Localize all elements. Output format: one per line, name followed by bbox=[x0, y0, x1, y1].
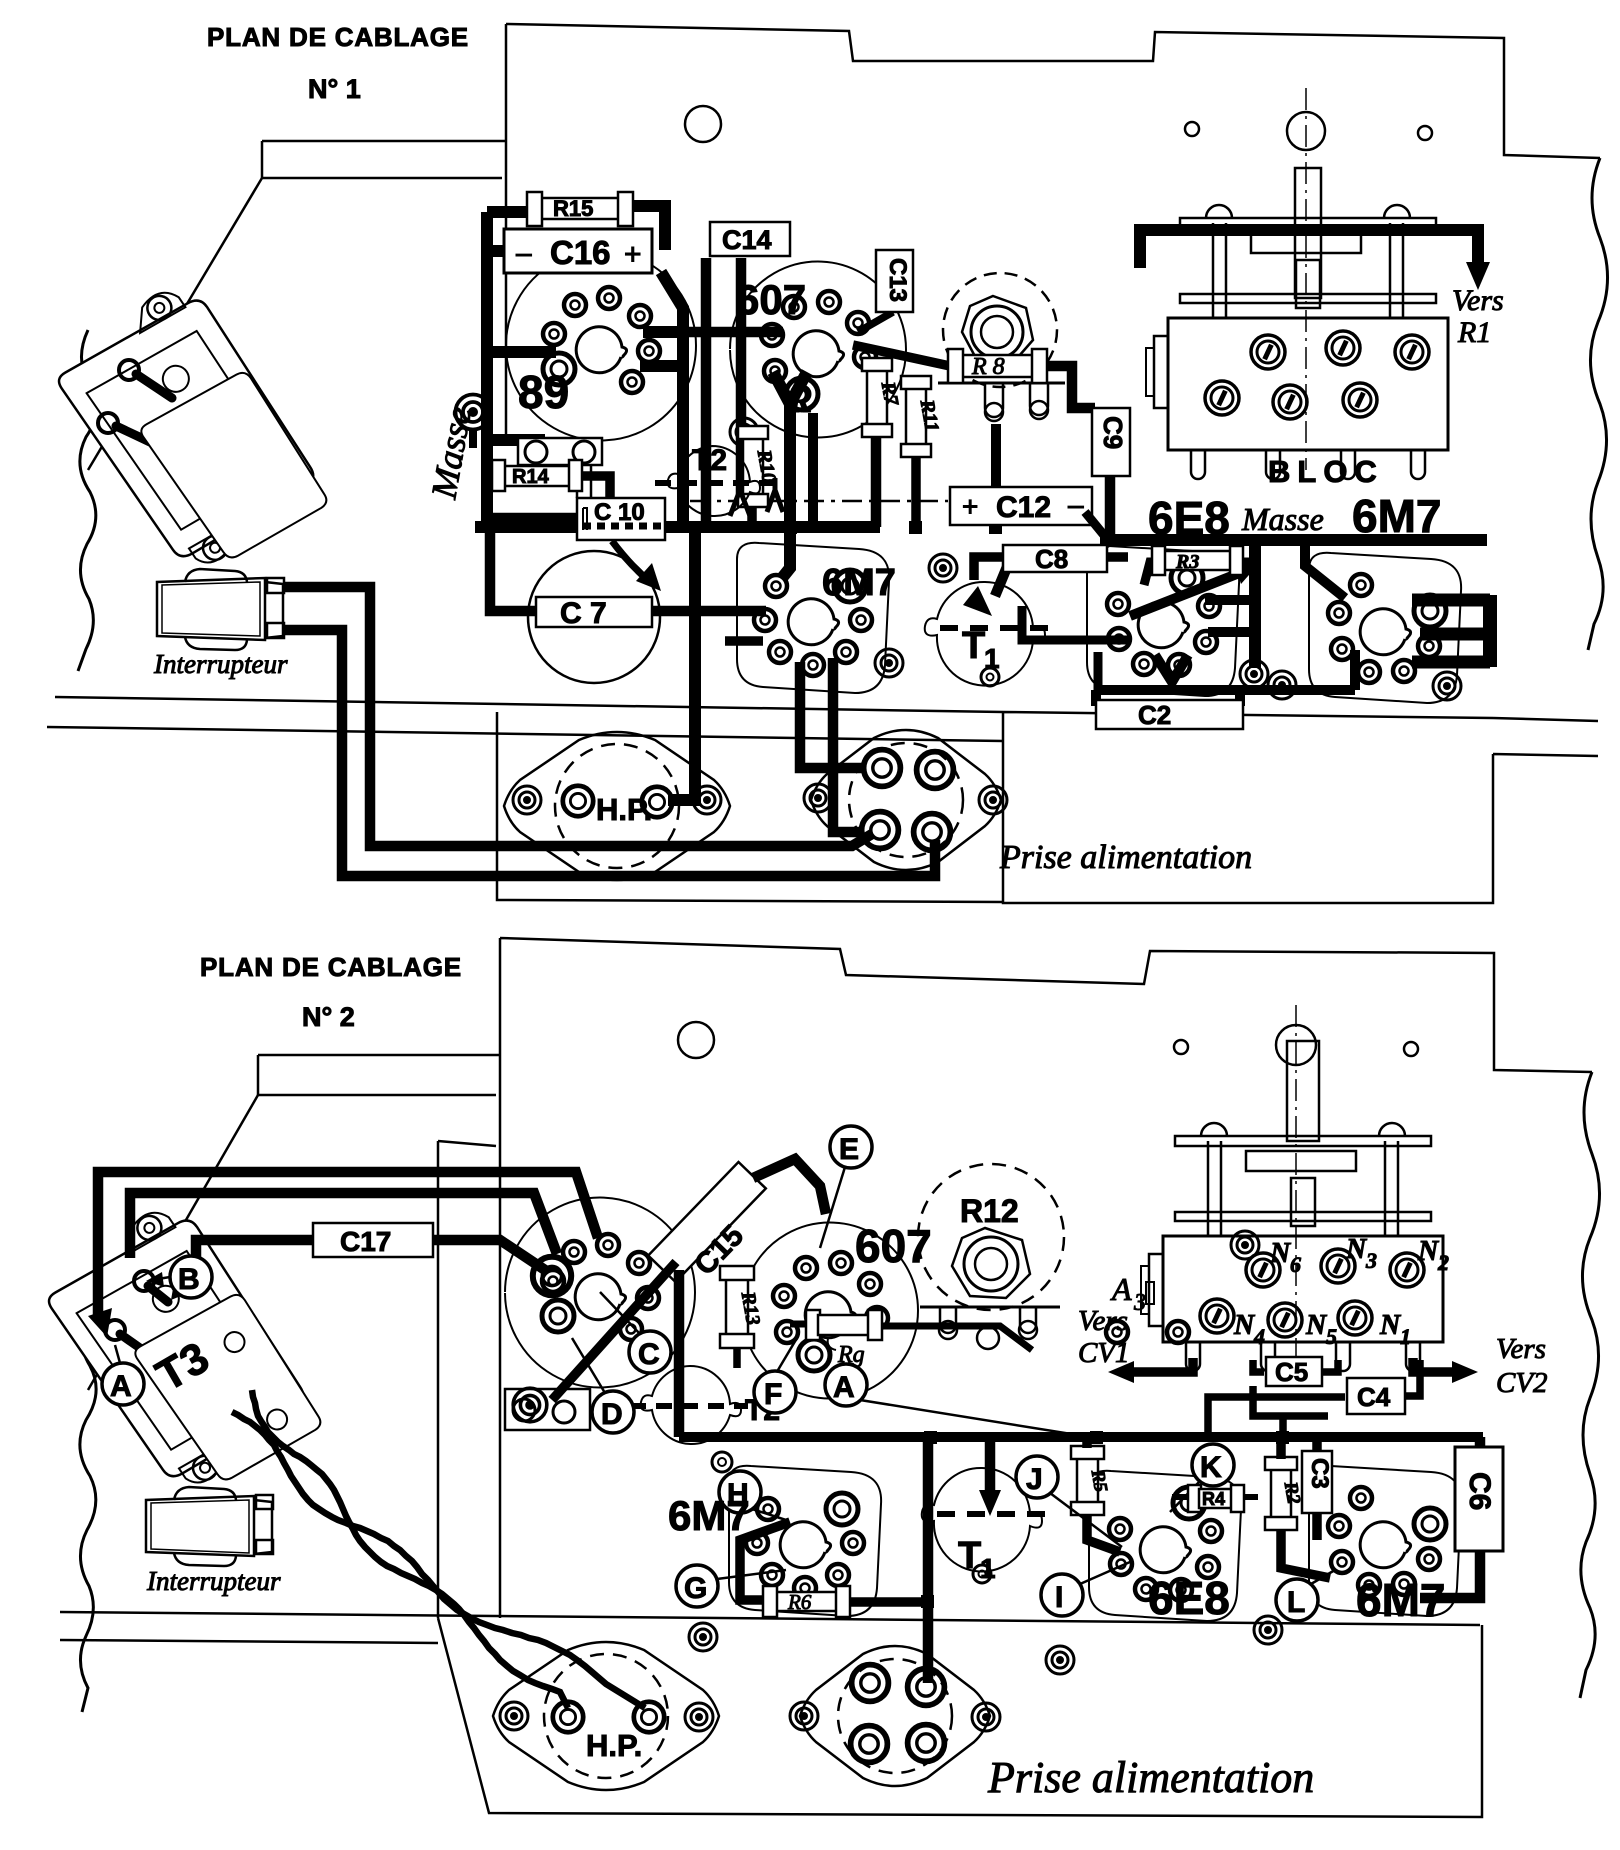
left paper torn edge bbox=[78, 330, 96, 671]
tube socket 607 (V2) center hole bbox=[793, 331, 843, 377]
twisted pair wire to HP bbox=[252, 1390, 568, 1708]
svg-text:I: I bbox=[1055, 1581, 1063, 1614]
pointer E bbox=[820, 1167, 845, 1248]
tube socket 89 (V1) plan2 pin 7 bbox=[620, 1318, 642, 1340]
tube socket 6E8 (V4) pin 6 bbox=[1108, 628, 1130, 650]
wire C6 bottom to 6M7 pin bbox=[1420, 1551, 1480, 1598]
svg-text:1: 1 bbox=[1400, 1324, 1411, 1349]
power socket prise alimentation ear rivet 1 bbox=[804, 784, 832, 812]
loudspeaker socket HP pin 2 bbox=[642, 787, 672, 817]
tube socket 607 (V2) pin 1 bbox=[786, 378, 818, 410]
wire C16 plus to bus bbox=[661, 272, 683, 527]
junction dot bbox=[1251, 534, 1263, 546]
svg-text:C4: C4 bbox=[1357, 1382, 1391, 1412]
power socket prise alimentation plan2 pin 4 bbox=[908, 1725, 945, 1762]
loudspeaker socket HP plan2 ear rivet 2 bbox=[685, 1703, 713, 1731]
resistor R11 bbox=[901, 376, 943, 457]
chassis top plate outline bbox=[506, 24, 1600, 445]
socket 6M7r rivet bbox=[1268, 671, 1296, 699]
capacitor C6 bbox=[1455, 1447, 1503, 1551]
wire 6E8 diagonal bbox=[1130, 572, 1242, 616]
tube socket 6M7 (V3) plan2 pin 2 bbox=[842, 1532, 864, 1554]
arrowhead CV1 bbox=[1108, 1361, 1134, 1383]
power socket prise alimentation pin 4 bbox=[914, 814, 951, 851]
tube socket 89 (V1) pin 3 bbox=[564, 294, 586, 316]
circled letter H bbox=[719, 1471, 761, 1513]
BLOC2 side tab bbox=[1149, 1254, 1163, 1326]
wire R5 top bbox=[1082, 1437, 1092, 1448]
circled letter K bbox=[1192, 1444, 1234, 1486]
BLOC shaft collar bbox=[1251, 233, 1361, 253]
wire arrow into T1 bbox=[995, 550, 1014, 596]
svg-text:4: 4 bbox=[1253, 1324, 1265, 1349]
loudspeaker socket HP plan2 pin 2 bbox=[634, 1702, 664, 1732]
wire vers CV2 bbox=[1413, 1358, 1460, 1372]
circled letter L bbox=[1276, 1579, 1318, 1621]
svg-text:C12: C12 bbox=[996, 491, 1051, 524]
wire C3 top bbox=[1312, 1437, 1322, 1450]
tube socket 6E8 (V4) plan2 pin 1 bbox=[1173, 1487, 1205, 1519]
wire pot lug to bus bbox=[991, 424, 1001, 527]
chassis right fold bbox=[1280, 38, 1598, 723]
transformer second cover outline bbox=[138, 361, 333, 568]
svg-text:C5: C5 bbox=[1275, 1357, 1308, 1387]
socket 6M7 rivet bbox=[875, 649, 903, 677]
svg-text:6M7: 6M7 bbox=[1352, 490, 1441, 542]
pointer C bbox=[600, 1292, 640, 1334]
svg-text:Prise alimentation: Prise alimentation bbox=[999, 839, 1252, 876]
chassis 2 left slope edge bbox=[88, 1095, 258, 1390]
big pin 89-2 grid bbox=[533, 1257, 571, 1295]
tube socket 6M7 (V5) plan2 center hole bbox=[1360, 1522, 1410, 1568]
BLOC2 top plate bar bbox=[1175, 1136, 1431, 1146]
wire C5 left lead bbox=[1253, 1360, 1264, 1372]
tube socket 6M7 (V5) plan2 plate bbox=[1309, 1466, 1461, 1616]
svg-text:+: + bbox=[962, 491, 978, 522]
tube socket 6M7 (V3) plate bbox=[737, 543, 889, 693]
tube socket 6M7 (V5) pin 4 bbox=[1358, 661, 1380, 683]
left paper torn edge 2 bbox=[80, 1310, 96, 1712]
potentiometer R8 bracket bbox=[938, 382, 1065, 385]
tube socket 607 (V2) pin 5 bbox=[818, 291, 840, 313]
BLOC main box bbox=[1168, 318, 1448, 450]
svg-text:C17: C17 bbox=[340, 1226, 391, 1257]
terminal strip plan2 bbox=[505, 1389, 590, 1430]
svg-text:J: J bbox=[1026, 1463, 1043, 1496]
svg-text:H.P.: H.P. bbox=[586, 1728, 642, 1763]
tube socket 6M7 (V3) pin 5 bbox=[769, 641, 791, 663]
svg-text:Masse: Masse bbox=[1241, 501, 1324, 537]
svg-text:R12: R12 bbox=[960, 1193, 1019, 1229]
svg-text:6: 6 bbox=[1290, 1252, 1301, 1277]
tube socket 6E8 (V4) plan2 pin 5 bbox=[1135, 1578, 1157, 1600]
transformer terminal lugs bbox=[116, 374, 172, 442]
chassis 2 side wall edge bbox=[438, 1141, 496, 1618]
BLOC2 trimmer screw 4 bbox=[1200, 1299, 1234, 1333]
tube socket 6M7 (V5) pin 7 bbox=[1350, 574, 1372, 596]
BLOC post caps bbox=[1206, 205, 1410, 218]
svg-text:–: – bbox=[516, 237, 532, 268]
junction dot bbox=[1361, 534, 1373, 546]
power socket prise alimentation plan2 pin 1 bbox=[852, 1665, 889, 1702]
resistor R14 bbox=[492, 460, 582, 491]
terminal strip above R14 bbox=[518, 438, 602, 465]
capacitor C5 bbox=[1266, 1357, 1322, 1387]
tube socket 607 (V2) plate bbox=[730, 262, 906, 438]
socket 6M7-2 rivet bbox=[689, 1623, 717, 1651]
circled letter A t3 bbox=[102, 1363, 144, 1405]
svg-text:C13: C13 bbox=[884, 258, 911, 302]
tube socket 6E8 (V4) pin 7 bbox=[1107, 593, 1129, 615]
power socket prise alimentation mounting plate bbox=[811, 730, 1001, 870]
loudspeaker socket HP pin 1 bbox=[563, 786, 593, 816]
wire 6M7r pins to right bar bottom bbox=[1412, 656, 1490, 669]
power socket prise alimentation ear rivet 2 bbox=[979, 786, 1007, 814]
tube socket 607 (V2) pin 4 bbox=[783, 296, 805, 318]
capacitor C8 bbox=[1003, 544, 1107, 574]
wire R14 left lead bbox=[487, 471, 498, 481]
tube socket 89 (V1) plate bbox=[506, 251, 696, 441]
wire C4 left lead bbox=[1208, 1397, 1345, 1437]
svg-text:T: T bbox=[962, 625, 985, 667]
wire C5 right lead bbox=[1322, 1360, 1338, 1372]
socket 89 rivet lower bbox=[456, 395, 491, 430]
resistor R8 bbox=[948, 349, 1047, 383]
tube socket 6M7 (V3) plan2 pin 6 bbox=[746, 1532, 768, 1554]
wire C5 down bbox=[1253, 1386, 1328, 1437]
BLOC shaft bbox=[1295, 168, 1321, 298]
BLOC trimmer screw 1 bbox=[1251, 335, 1285, 369]
tube socket 6E8 (V4) plan2 plate bbox=[1089, 1471, 1241, 1621]
capacitor C7 bbox=[536, 597, 652, 630]
arrowhead wire third bbox=[171, 1277, 193, 1300]
pointer J bbox=[1050, 1493, 1122, 1547]
resistor R6 bbox=[763, 1586, 850, 1617]
svg-text:1: 1 bbox=[984, 643, 1000, 674]
wire C15 bottom diagonal bbox=[552, 1262, 676, 1400]
wire R2 bottom bbox=[1281, 1530, 1330, 1578]
wire R3 left lead bbox=[1144, 562, 1162, 585]
power socket prise alimentation pin 2 bbox=[917, 752, 954, 789]
tube socket 6E8 (V4) plan2 pin 7 bbox=[1109, 1518, 1131, 1540]
BLOC trimmer screw 6 bbox=[1343, 383, 1377, 417]
tube socket 6M7 (V3) pin 6 bbox=[754, 609, 776, 631]
chassis 2 left flange strip bbox=[258, 1055, 500, 1095]
wire R5 bottom bbox=[1087, 1514, 1120, 1552]
wire 89 to 607 bbox=[645, 327, 783, 338]
arrowhead vers R1 bbox=[1466, 262, 1490, 290]
wire third to C17 bbox=[177, 1240, 313, 1290]
junction dot bbox=[784, 521, 797, 534]
chassis 2 small hole right bbox=[1404, 1042, 1418, 1056]
resistor R15 bbox=[527, 192, 633, 226]
wire R15 left lead bbox=[487, 206, 534, 218]
transformer T3 cover bbox=[132, 1283, 327, 1490]
wire C15 top lead bbox=[753, 1159, 826, 1214]
wire long top to 89 pin bbox=[98, 1172, 598, 1320]
socket 6E8 rivet bbox=[1240, 660, 1268, 688]
svg-text:G: G bbox=[684, 1572, 707, 1605]
arrow B to terminal bbox=[158, 1277, 170, 1279]
socket T1 plan2 bbox=[922, 1468, 1045, 1583]
wire C14 right vertical bbox=[736, 258, 747, 500]
pointer L bbox=[1311, 1570, 1335, 1584]
svg-text:Prise alimentation: Prise alimentation bbox=[987, 1753, 1314, 1802]
capacitor C10 bbox=[577, 498, 665, 540]
wire C4 right lead bbox=[1405, 1360, 1420, 1396]
wire bloc to vers R1 bbox=[1140, 230, 1478, 272]
socket 607 rivet bbox=[730, 418, 758, 446]
tube socket 607 (V2) plan2 center hole bbox=[805, 1292, 855, 1338]
BLOC2 shaft collar bbox=[1246, 1151, 1356, 1171]
tube socket 6M7 (V3) plan2 pin 4 bbox=[794, 1577, 816, 1599]
wire C17 to 89 pin bbox=[433, 1240, 548, 1272]
potentiometer R12 bracket bbox=[920, 1306, 1060, 1309]
BLOC trimmer screw 5 bbox=[1273, 385, 1307, 419]
bloc axis dash-dot bbox=[1305, 88, 1307, 470]
circled letter A bus bbox=[825, 1364, 867, 1406]
tube socket 6E8 (V4) pin 2 bbox=[1198, 595, 1220, 617]
potentiometer R12 hex nut bbox=[952, 1228, 1030, 1298]
tube socket 6M7 (V5) pin 2 bbox=[1418, 635, 1440, 657]
svg-text:R 8: R 8 bbox=[971, 354, 1005, 380]
tube socket 6M7 (V5) plan2 pin 7 bbox=[1350, 1487, 1372, 1509]
chassis 2 apron bbox=[438, 1618, 1482, 1817]
svg-text:C3: C3 bbox=[1306, 1458, 1333, 1489]
tube socket 607 (V2) pin 3 bbox=[761, 324, 783, 346]
potentiometer R8 hex nut bbox=[962, 296, 1033, 364]
junction dot bbox=[689, 521, 701, 533]
power socket prise alimentation plan2 pin 2 bbox=[908, 1669, 945, 1706]
wire 89 grid pin from bus bbox=[487, 346, 556, 358]
svg-text:R2: R2 bbox=[1279, 1479, 1304, 1506]
wire vers CV1 bbox=[1125, 1358, 1193, 1372]
junction dot bbox=[1104, 534, 1116, 546]
tube socket 6E8 (V4) plan2 pin 6 bbox=[1110, 1553, 1132, 1575]
BLOC frame posts bbox=[1213, 223, 1403, 318]
power socket prise alimentation plan2 ear rivet 1 bbox=[790, 1702, 818, 1730]
wire 6M7 bottom to prise pin1 bbox=[800, 662, 864, 768]
svg-text:N: N bbox=[1269, 1238, 1292, 1269]
svg-text:C8: C8 bbox=[1035, 544, 1068, 574]
svg-text:1: 1 bbox=[980, 1553, 996, 1584]
BLOC trimmer screw 4 bbox=[1205, 381, 1239, 415]
chassis apron left edge bbox=[497, 712, 1003, 902]
chassis punch hole bbox=[685, 106, 721, 142]
BLOC side tab bbox=[1154, 336, 1168, 408]
transformer T3 bbox=[38, 1195, 318, 1499]
svg-text:89: 89 bbox=[518, 366, 569, 418]
BLOC2 shaft bbox=[1287, 1041, 1319, 1141]
tube socket 6E8 (V4) plate bbox=[1087, 546, 1239, 696]
BLOC2 main box bbox=[1163, 1236, 1443, 1342]
BLOC2 mid bar bbox=[1175, 1212, 1431, 1221]
capacitor C16 bbox=[504, 229, 652, 273]
loudspeaker socket HP mounting plate bbox=[504, 732, 730, 880]
capacitor C4 bbox=[1347, 1378, 1405, 1414]
wire 6M7 lower pin bbox=[725, 636, 763, 646]
wire R3 right lead bbox=[1235, 558, 1255, 567]
bloc 2 axis dash-dot bbox=[1295, 1005, 1297, 1370]
pointer H bbox=[752, 1509, 786, 1520]
wire R7 bottom to C12 bbox=[871, 436, 882, 527]
tube socket 89 (V1) plan2 pin 3 bbox=[563, 1241, 585, 1263]
wire C8 right lead bbox=[1107, 552, 1128, 562]
chassis small hole right bbox=[1418, 126, 1432, 140]
power socket prise alimentation dashed circle bbox=[849, 743, 963, 857]
transformer T3 terminal lugs bbox=[120, 1286, 168, 1348]
tube socket 607 (V2) plan2 pin 3 bbox=[773, 1285, 795, 1307]
svg-text:Interrupteur: Interrupteur bbox=[146, 1566, 281, 1596]
wire C3 bottom bbox=[1312, 1513, 1322, 1540]
wire C7 left lead bbox=[490, 530, 538, 611]
svg-text:R1: R1 bbox=[1457, 316, 1491, 349]
svg-text:–: – bbox=[1068, 489, 1084, 520]
capacitor C3 vertical bbox=[1302, 1451, 1333, 1513]
tube socket 89 (V1) plan2 pin 5 bbox=[628, 1252, 650, 1274]
junction dot bbox=[481, 521, 493, 533]
circled letter F bbox=[754, 1371, 796, 1413]
wire 6M7-2 pin loop to R6 bbox=[740, 1522, 790, 1600]
svg-text:A: A bbox=[110, 1370, 132, 1403]
circled letter B bbox=[170, 1256, 212, 1298]
svg-text:PLAN DE CABLAGE: PLAN DE CABLAGE bbox=[207, 22, 469, 52]
loudspeaker socket HP ear rivet 2 bbox=[693, 786, 721, 814]
wire 6E8 pin lower bbox=[1208, 627, 1255, 637]
wire R13 bottom bbox=[733, 1348, 741, 1368]
tube socket 607 (V2) plan2 pin 4 bbox=[795, 1257, 817, 1279]
potentiometer R12 dashed circle bbox=[918, 1164, 1064, 1310]
wire 6E8 bottom V bbox=[1155, 655, 1188, 682]
tube socket 6M7 (V3) plan2 pin 1 bbox=[826, 1493, 858, 1525]
tube socket 6E8 (V4) plan2 center hole bbox=[1140, 1527, 1190, 1573]
BLOC mid bar bbox=[1180, 294, 1436, 303]
tube socket 607 (V2) pin 7 bbox=[854, 346, 876, 368]
tube socket 607 (V2) pin 6 bbox=[847, 312, 869, 334]
tube socket 6M7 (V5) center hole bbox=[1360, 609, 1410, 655]
svg-text:C9: C9 bbox=[1098, 416, 1128, 449]
twisted pair wire strand 2 bbox=[232, 1412, 645, 1708]
svg-text:A: A bbox=[833, 1371, 855, 1404]
bloc 2 shaft hole bbox=[1276, 1025, 1316, 1065]
tube socket 607 (V2) plan2 pin 7 bbox=[866, 1307, 888, 1329]
tube socket 89 (V1) plan2 pin 6 bbox=[637, 1287, 659, 1309]
svg-text:6E8: 6E8 bbox=[1148, 1572, 1230, 1624]
svg-text:T2: T2 bbox=[692, 444, 727, 477]
tube socket 6M7 (V5) pin 6 bbox=[1328, 602, 1350, 624]
arrow C10 to C7 bbox=[612, 541, 650, 582]
svg-text:C 7: C 7 bbox=[560, 597, 607, 630]
arrowhead wire A bbox=[88, 1308, 112, 1337]
wire C16 minus tie bbox=[487, 245, 506, 257]
resistor R13 bbox=[720, 1266, 764, 1348]
BLOC shaft lower bbox=[1296, 260, 1320, 308]
resistor R5 vertical bbox=[1071, 1446, 1111, 1515]
tube socket 89 (V1) pin 6 bbox=[638, 340, 660, 362]
tube socket 6M7 (V5) plan2 pin 5 bbox=[1331, 1551, 1353, 1573]
power socket prise alimentation plan2 pin 3 bbox=[851, 1726, 888, 1763]
tube socket 6M7 (V3) plan2 center hole bbox=[780, 1522, 830, 1568]
svg-text:3: 3 bbox=[1133, 1290, 1146, 1316]
wire R15 right lead to C16 plus bbox=[626, 206, 665, 250]
svg-text:607: 607 bbox=[736, 276, 806, 323]
pointer A bus bbox=[860, 1400, 1090, 1437]
junction dot bbox=[746, 521, 758, 533]
pointer A to terminal bbox=[115, 1345, 120, 1363]
socket T2 bbox=[655, 446, 783, 516]
BLOC bottom lugs bbox=[1191, 450, 1205, 479]
tube socket 6M7 (V3) plan2 pin 5 bbox=[761, 1564, 783, 1586]
svg-text:N° 1: N° 1 bbox=[308, 74, 361, 104]
svg-text:T: T bbox=[958, 1535, 981, 1577]
tube socket 6M7 (V3) pin 7 bbox=[765, 575, 787, 597]
resistor R10 bbox=[738, 426, 780, 507]
tube socket 89 (V1) pin 4 bbox=[598, 287, 620, 309]
wire R14 right lead bbox=[576, 476, 610, 498]
loudspeaker socket HP plan2 mounting plate bbox=[493, 1642, 719, 1790]
svg-text:3: 3 bbox=[1365, 1248, 1377, 1273]
svg-text:C: C bbox=[638, 1338, 660, 1371]
tube socket 6E8 (V4) pin 4 bbox=[1168, 654, 1190, 676]
wire bus down to HP pin bbox=[668, 527, 695, 800]
tube socket 6E8 (V4) pin 5 bbox=[1133, 653, 1155, 675]
capacitor C2 bbox=[1096, 700, 1243, 730]
tube socket 89 (V1) plan2 pin 2 bbox=[542, 1270, 564, 1292]
socket T1 bbox=[925, 582, 1048, 686]
svg-text:N° 2: N° 2 bbox=[302, 1002, 355, 1032]
svg-text:R14: R14 bbox=[512, 466, 550, 488]
wire bus to 6M7 pin bbox=[718, 606, 766, 617]
junction dots bus2 bbox=[924, 1431, 937, 1444]
wire C16 plus down to socket 89 pin bbox=[640, 332, 683, 366]
right paper torn edge bbox=[1588, 158, 1608, 650]
socket 89-2 rivet bbox=[513, 1388, 547, 1422]
tube socket 6E8 (V4) pin 1 bbox=[1171, 562, 1203, 594]
circled letter E bbox=[830, 1126, 872, 1168]
capacitor C7 circle bbox=[528, 551, 660, 683]
tube socket 6M7 (V5) plan2 pin 6 bbox=[1328, 1515, 1350, 1537]
capacitor C14 bbox=[710, 222, 790, 256]
wire interrupteur bottom bbox=[284, 630, 935, 876]
svg-text:2: 2 bbox=[1437, 1250, 1449, 1275]
wire right vertical bar bbox=[1483, 595, 1497, 667]
wire R2 top bbox=[1276, 1437, 1286, 1459]
tube socket 89 (V1) plan2 plate bbox=[505, 1198, 695, 1388]
wire R10 bottom lead bbox=[747, 502, 757, 527]
arrowhead CV2 bbox=[1452, 1361, 1478, 1383]
svg-text:6M7: 6M7 bbox=[822, 562, 896, 604]
BLOC2 frame posts bbox=[1208, 1141, 1398, 1236]
dash-dot masse axis bbox=[690, 500, 948, 503]
tube socket 607 (V2) plan2 pin 6 bbox=[859, 1273, 881, 1295]
wire C8 left lead bbox=[974, 557, 1003, 580]
chassis 2 top plate outline bbox=[500, 938, 1592, 1618]
resistor Rg bbox=[790, 1310, 1032, 1368]
chassis 2 fold lines bbox=[60, 1612, 1480, 1643]
svg-text:C6: C6 bbox=[1463, 1472, 1496, 1510]
BLOC2 trimmer screw 2 bbox=[1321, 1249, 1355, 1283]
tube socket 6E8 (V4) pin 3 bbox=[1195, 631, 1217, 653]
wire interrupteur top bbox=[284, 587, 872, 846]
loudspeaker socket HP plan2 ear rivet 1 bbox=[500, 1702, 528, 1730]
BLOC2 trimmer screw 5 bbox=[1268, 1303, 1302, 1337]
tube socket 89 (V1) center hole bbox=[576, 327, 626, 373]
tube socket 89 (V1) plan2 pin 1 bbox=[542, 1300, 574, 1332]
chassis apron outline bbox=[1003, 712, 1598, 903]
wire 607 cathode V left bbox=[773, 372, 807, 578]
pointer G bbox=[717, 1570, 786, 1579]
transformer (output) left bbox=[48, 275, 328, 579]
